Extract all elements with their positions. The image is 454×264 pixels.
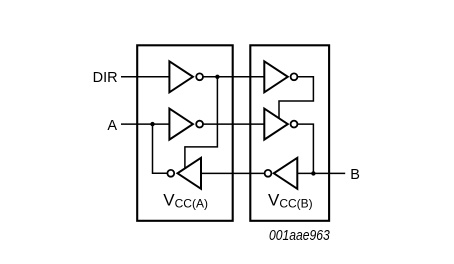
bubble U5 output — [291, 121, 298, 128]
wire U1 output to U4 input — [203, 76, 264, 78]
inverter U2 (A input, A-domain) — [169, 109, 193, 140]
inverter U6 (B input, points left) — [274, 158, 298, 189]
wire staircase DIR enable (A-domain) — [185, 77, 218, 170]
svg-text:A: A — [107, 118, 117, 134]
box VCC(A) domain — [137, 45, 233, 221]
wire U6 output to U3 input — [201, 172, 264, 174]
box VCC(B) domain — [250, 45, 329, 221]
inverter U5 (B driver) — [264, 109, 288, 140]
svg-text:001aae963: 001aae963 — [269, 228, 330, 244]
junction A net — [150, 122, 154, 126]
svg-text:DIR: DIR — [93, 70, 118, 86]
bubble U3 output — [167, 170, 174, 177]
wire U3 output up to A junction — [153, 124, 168, 173]
svg-text:B: B — [350, 167, 360, 183]
bubble U4 output — [291, 73, 298, 80]
bubble U1 output — [196, 73, 203, 80]
wire DIR lead-in — [121, 76, 169, 78]
bubble U2 output — [196, 121, 203, 128]
inverter U4 (DIR, B-domain) — [264, 61, 288, 92]
inverter U3 (A driver, points left) — [178, 158, 202, 189]
wire A lead-in — [121, 123, 169, 125]
wire U5 output down to B junction — [298, 124, 314, 173]
wire U2 output to U5 input — [203, 123, 264, 125]
wire staircase DIR enable (B-domain) — [279, 77, 313, 120]
junction DIR net — [215, 75, 219, 79]
bubble U6 output — [265, 170, 272, 177]
wire B line — [297, 172, 345, 174]
junction B net — [311, 171, 315, 175]
inverter U1 (DIR, A-domain) — [169, 61, 193, 92]
